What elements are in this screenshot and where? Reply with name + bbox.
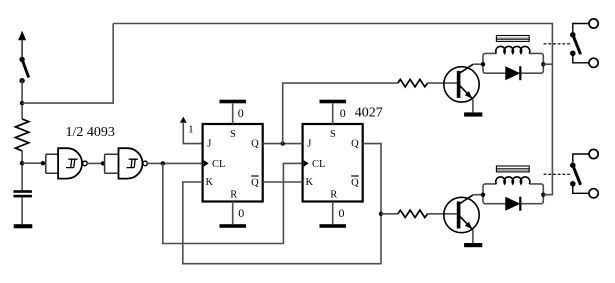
wire C1 to ground [21,197,23,224]
wire K1 right node to rail [543,63,552,65]
wire Q1 emitter to ground [472,99,474,112]
transistor Q1 [444,64,479,102]
node clock junction [161,161,165,165]
contact dot lower K1 [570,51,576,57]
pin label Qbar [351,176,359,188]
schmitt symbol U1B [127,159,138,167]
schmitt symbol U1A [66,159,77,167]
switch S1 [19,57,28,84]
wire clock to FF2 CL [163,163,303,243]
wire node to resistor R3 [381,213,398,215]
svg-text:Q: Q [251,139,259,150]
ground Q2 emitter [464,243,482,247]
U2A clock triangle [204,160,209,167]
node at gate U1A input [41,161,45,165]
wire R2 to Q1 base [428,82,457,84]
gate U1A input tie bracket [46,154,58,173]
wire terminal to contact [573,24,589,33]
U2B clock triangle [304,160,309,167]
wire contact to terminal bottom [573,56,589,63]
ground [14,224,33,228]
wire Q2 emitter to ground [472,230,474,243]
relay K1 contact terminal top [589,19,598,28]
relay K1 frame wires [483,53,543,73]
relay K1 armature bar [496,36,529,42]
transistor Q2 [444,195,479,233]
wire terminal to contact [573,154,589,163]
flip-flop U2B box [303,124,363,202]
gate U1B input tie bracket [105,154,119,173]
wire Q2 collector to relay node [473,194,483,196]
output bubble U1A [83,161,88,166]
U2A S tie to 0 [220,100,247,124]
node Q1 branch [281,141,285,145]
node at gate U1B input [101,161,105,165]
supply arrow (V+) [18,31,26,60]
wire FF2 Q loop to FF1 K [183,144,381,264]
node Q2 branch to R3 [379,212,383,216]
node B junction [20,161,24,165]
svg-text:R: R [230,189,237,200]
dashed mechanical link K2 [544,173,572,175]
wire K2 right node to rail [543,194,552,196]
relay K2 contact terminal top [589,149,598,158]
flip-flop U2A box [203,124,263,202]
wire U1B out to FF1 CL [147,162,202,164]
wire R3 to Q2 base [428,213,457,215]
contact lever K1 [573,35,581,55]
resistor R1 [15,119,28,151]
diode D2 [505,197,520,211]
svg-text:4027: 4027 [355,105,383,120]
wire switch to resistor [21,81,23,119]
svg-text:1: 1 [188,123,194,135]
pin label Qbar [251,176,259,188]
resistor R3 [398,210,428,217]
node K1 left [481,62,485,66]
node K2 left [481,193,485,197]
contact dot upper K2 [570,163,576,169]
relay K1 contact terminal bottom [589,58,598,67]
svg-text:J: J [207,138,211,149]
svg-text:Q: Q [251,177,259,188]
svg-text:K: K [206,177,214,188]
svg-text:0: 0 [238,206,244,220]
svg-text:J: J [307,138,311,149]
wire U1A out to U1B in [87,162,105,164]
wire FF1 Q to FF2 J [263,143,303,145]
wire Q1 collector to relay node [473,63,483,65]
svg-text:0: 0 [238,106,244,120]
svg-text:0: 0 [339,206,345,220]
resistor R2 [398,79,428,86]
U2B S tie to 0 [320,100,347,124]
svg-text:R: R [330,189,337,200]
contact dot upper K1 [570,32,576,38]
svg-text:CL: CL [312,159,325,170]
NAND gate U1A (4093) [58,148,82,178]
svg-text:K: K [306,177,314,188]
logic 1 tie arrow at FF1 J [180,117,203,144]
svg-text:Q: Q [351,177,359,188]
relay K2 armature bar [496,166,529,172]
svg-text:0: 0 [340,106,346,120]
dashed mechanical link K1 [544,43,572,45]
svg-text:CL: CL [212,159,225,170]
relay K1 coil [496,46,530,53]
wire top rail [113,24,552,195]
svg-text:S: S [230,129,236,140]
node K1 right [541,62,545,66]
output bubble U1B [143,161,148,166]
contact lever K2 [573,165,581,185]
contact dot lower K2 [570,181,576,187]
ground Q1 emitter [464,112,482,116]
relay K2 contact terminal bottom [589,189,598,198]
svg-text:1/2 4093: 1/2 4093 [66,125,115,140]
wire node A to top rail riser [22,24,113,104]
svg-text:Q: Q [351,139,359,150]
node A junction [20,101,24,105]
diode D1 [505,66,520,80]
U2A R tie to 0 [220,202,247,228]
node K2 right [541,193,545,197]
relay K2 frame wires [483,184,543,204]
wire Q1 branch up to base resistor R2 [283,83,398,144]
capacitor C1 [14,190,32,197]
wire node B to gate input [22,162,46,164]
wire R1 to node B [21,151,23,190]
NAND gate U1B (4093) [119,148,143,178]
wire FF1 Qbar to FF2 K [263,181,303,183]
U2B R tie to 0 [320,202,347,228]
relay K2 coil [496,177,530,184]
svg-text:S: S [330,129,336,140]
wire contact to terminal bottom [573,186,589,193]
